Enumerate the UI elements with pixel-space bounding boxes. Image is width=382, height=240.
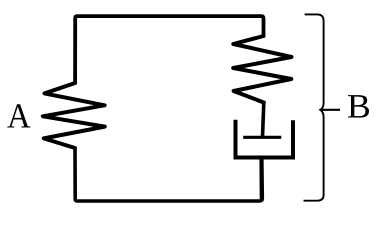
spring A (left zigzag) [43,83,105,148]
wire top and right side of rectangle [75,16,263,83]
brace-to-label dash [321,109,340,111]
label B [348,95,369,118]
label A [7,104,30,127]
wire rod from spring to piston [263,103,264,138]
damper piston plate [243,136,281,139]
brace B (right curly bracket) [304,14,324,200]
wire rod below cup [259,158,263,201]
spring B (right zigzag) [233,36,291,103]
damper cylinder cup [236,120,294,158]
wire bottom-left [75,148,262,201]
